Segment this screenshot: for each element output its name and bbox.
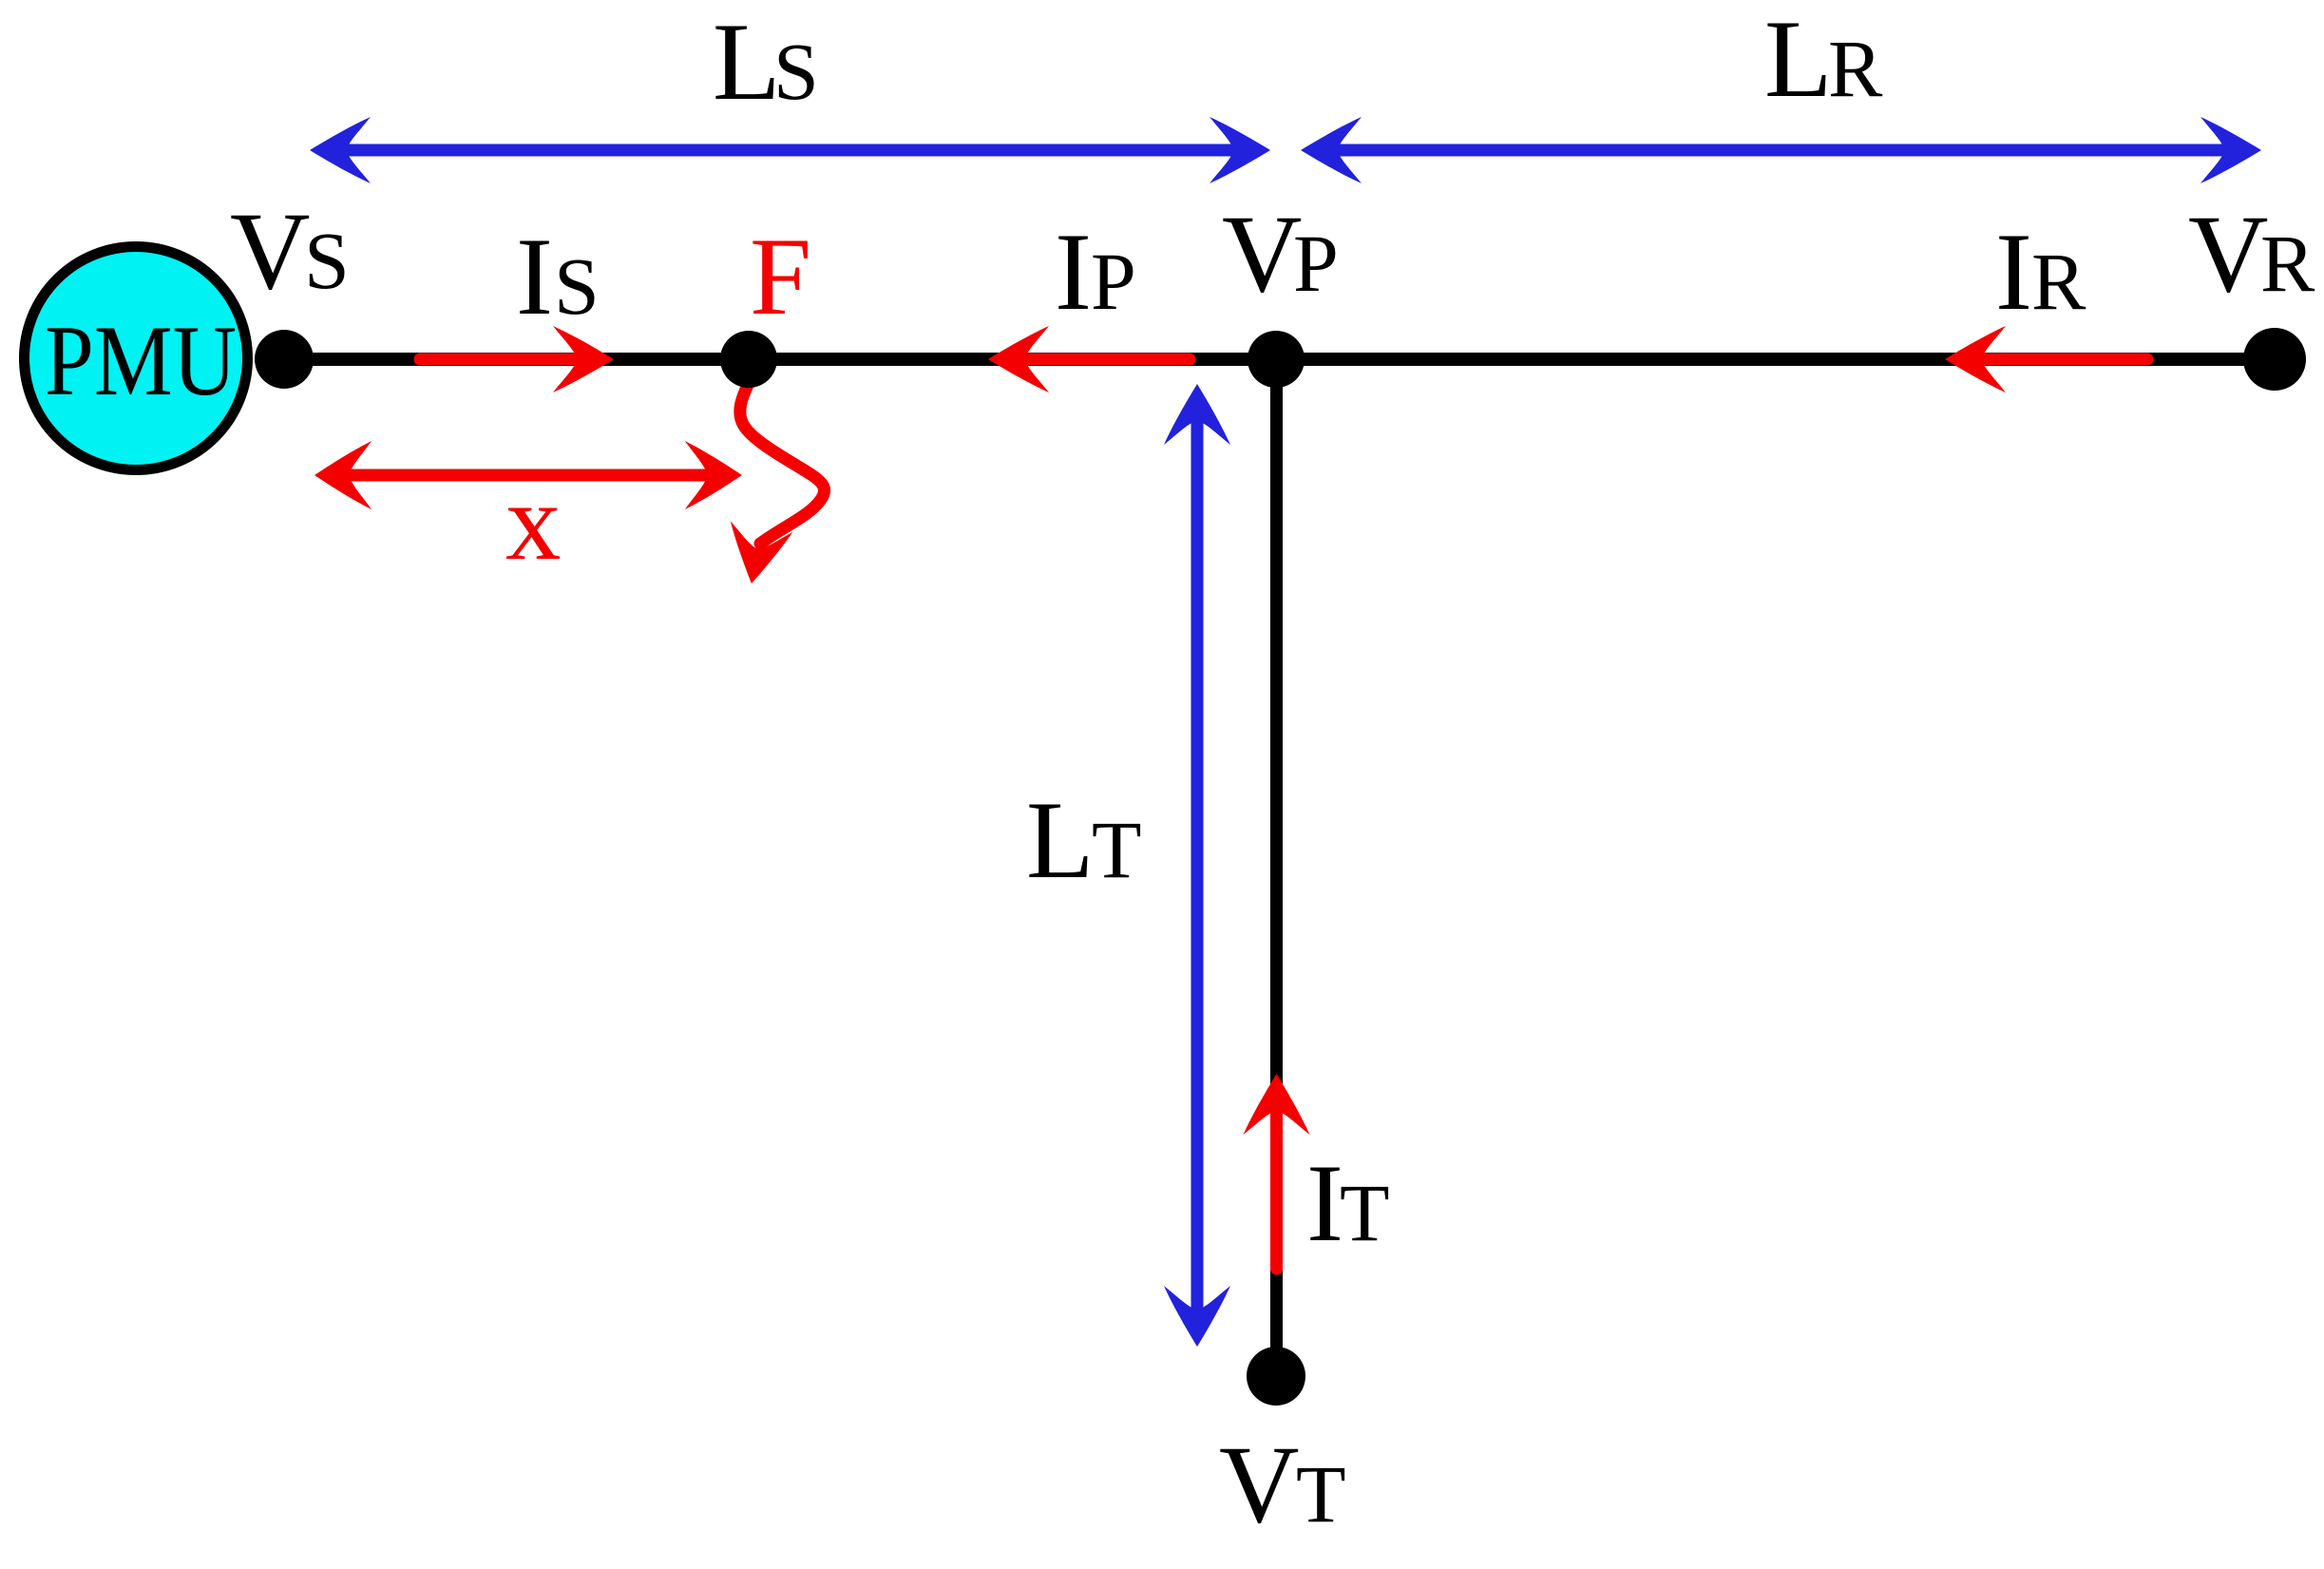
svg-text:IR: IR <box>1995 211 2086 334</box>
svg-text:x: x <box>505 461 562 584</box>
current arrow IR (red, leftward from VR) <box>1945 326 2147 392</box>
node Vs <box>255 330 314 389</box>
node F <box>720 331 777 388</box>
svg-text:LT: LT <box>1026 779 1142 902</box>
svg-text:F: F <box>750 216 811 338</box>
dimension arrow Ls (blue double arrow) <box>310 117 1270 183</box>
svg-text:LR: LR <box>1764 0 1883 121</box>
svg-text:VR: VR <box>2188 193 2315 316</box>
dimension arrow x (red double arrow below line) <box>314 441 742 509</box>
current arrow Is (red, rightward on line) <box>420 326 614 392</box>
svg-text:VT: VT <box>1219 1424 1346 1546</box>
node Vp <box>1248 331 1305 388</box>
current arrow IT (red, upward on tap) <box>1244 1074 1310 1269</box>
wire: main horizontal line Vs-F-Vp-VR <box>257 353 2275 366</box>
svg-text:VP: VP <box>1222 193 1339 316</box>
fault squiggle arrow at F <box>720 379 824 589</box>
PMU generator circle <box>25 247 248 470</box>
svg-text:LS: LS <box>713 1 819 124</box>
wire: vertical tap line Vp-VT <box>1270 359 1283 1368</box>
node VR <box>2243 328 2306 391</box>
dimension arrow LR (blue double arrow) <box>1301 117 2261 183</box>
svg-text:IP: IP <box>1055 211 1136 334</box>
svg-text:PMU: PMU <box>45 305 237 416</box>
svg-text:IT: IT <box>1306 1142 1390 1265</box>
node VT <box>1247 1347 1305 1406</box>
current arrow Ip (red, leftward toward F) <box>988 326 1190 392</box>
svg-text:VS: VS <box>230 190 350 313</box>
svg-text:IS: IS <box>516 216 600 338</box>
dimension arrow LT (blue vertical double arrow) <box>1164 384 1230 1347</box>
